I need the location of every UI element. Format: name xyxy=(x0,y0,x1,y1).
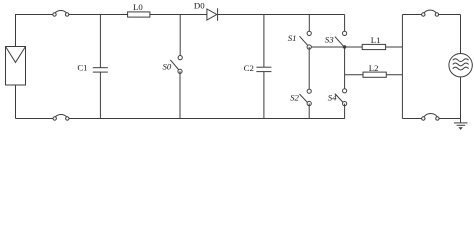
capacitor C2 xyxy=(256,67,271,71)
wire C2 to bottom xyxy=(263,72,265,119)
wire bridge right leg bottom xyxy=(344,104,346,119)
svg-text:L1: L1 xyxy=(371,35,381,45)
wire bridge right leg middle xyxy=(344,47,346,91)
svg-text:S0: S0 xyxy=(163,61,172,71)
svg-text:L0: L0 xyxy=(133,2,143,12)
wire bridge left leg middle xyxy=(308,47,310,91)
diode D0 xyxy=(207,8,218,21)
inductor L2 xyxy=(363,72,386,77)
wire bridge midpoint to L1 xyxy=(311,46,362,48)
wire bottom bus xyxy=(69,118,345,120)
connector bottom-left xyxy=(53,115,69,121)
capacitor C2 branch wire xyxy=(263,15,265,68)
switch S0 xyxy=(170,56,182,74)
svg-text:S4: S4 xyxy=(328,93,337,103)
ground xyxy=(454,123,468,130)
AC source xyxy=(449,53,472,76)
wire D0 to right leg corner xyxy=(218,14,345,16)
switch S3 xyxy=(335,31,347,46)
wire grid right rail xyxy=(460,15,462,123)
connector top-left xyxy=(53,11,69,17)
wire right leg to L2 xyxy=(345,74,363,76)
switch S4 xyxy=(335,89,347,106)
wire grid left rail xyxy=(401,15,403,119)
node bridge right midpoint xyxy=(343,45,346,48)
wire bottom bus left segment xyxy=(16,118,54,120)
svg-text:S1: S1 xyxy=(288,33,297,43)
svg-text:C1: C1 xyxy=(77,63,87,73)
wire L2 to grid rail xyxy=(386,74,402,76)
svg-text:S3: S3 xyxy=(325,35,334,45)
wire bridge left leg bottom xyxy=(308,104,310,119)
wire C1 to bottom xyxy=(99,72,101,118)
svg-text:D0: D0 xyxy=(194,1,205,11)
inductor L0 xyxy=(128,12,150,17)
switch S0 branch wire xyxy=(179,15,181,58)
svg-text:S2: S2 xyxy=(290,93,299,103)
wire top bus left segment xyxy=(16,15,53,47)
svg-text:C2: C2 xyxy=(244,63,254,73)
wire grid bottom bus xyxy=(402,118,421,120)
wire S0 to bottom xyxy=(179,71,181,118)
svg-text:L2: L2 xyxy=(369,63,379,73)
connector bottom-right xyxy=(422,113,440,120)
capacitor C1 branch wire xyxy=(99,15,101,68)
switch S1 xyxy=(300,31,312,49)
wire top bus to L0 xyxy=(69,14,128,16)
connector top-right xyxy=(422,10,439,16)
wire grid top bus right xyxy=(439,14,461,16)
wire bridge right leg top xyxy=(344,15,346,34)
wire bridge left leg top xyxy=(308,15,310,34)
wire L0 to D0 xyxy=(150,14,207,16)
wire grid top bus xyxy=(402,14,421,16)
PV module xyxy=(6,47,26,119)
capacitor C1 xyxy=(93,68,108,72)
wire grid bottom bus right xyxy=(439,118,460,120)
wire L1 to grid rail xyxy=(386,46,403,48)
switch S2 xyxy=(300,89,312,106)
inductor L1 xyxy=(362,44,385,49)
